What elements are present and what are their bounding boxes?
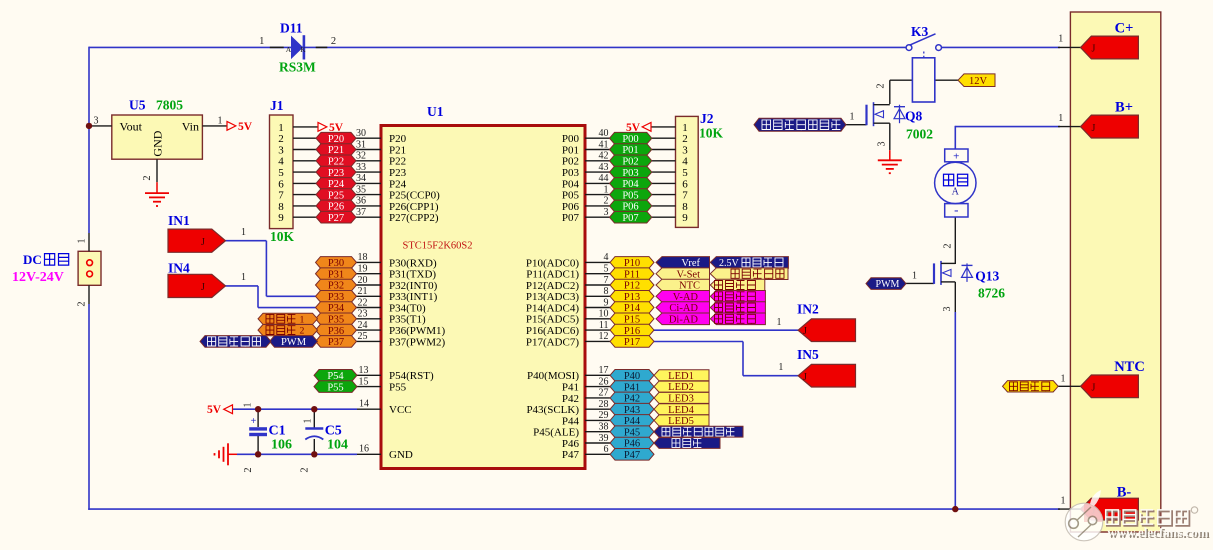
svg-text:P36(PWM1): P36(PWM1) [389,325,446,337]
svg-text:5: 5 [682,167,688,179]
svg-text:1: 1 [278,122,284,134]
svg-text:P07: P07 [562,212,580,224]
svg-text:P41: P41 [562,382,579,394]
svg-text:2: 2 [682,133,688,145]
svg-text:P16(ADC6): P16(ADC6) [526,325,580,337]
svg-text:P26(CPP1): P26(CPP1) [389,201,439,213]
svg-text:P44: P44 [562,415,580,427]
svg-text:7: 7 [682,190,688,202]
svg-text:4: 4 [604,252,609,263]
svg-text:34: 34 [356,173,366,184]
svg-text:P54(RST): P54(RST) [389,370,434,382]
svg-text:33: 33 [356,162,366,173]
svg-text:1: 1 [241,272,246,283]
svg-text:1: 1 [259,36,264,47]
svg-text:IN2: IN2 [797,302,819,317]
svg-text:2: 2 [943,244,954,249]
svg-text:P46: P46 [562,438,580,450]
svg-text:1: 1 [912,270,917,281]
svg-text:17: 17 [599,365,609,376]
svg-text:28: 28 [599,399,609,410]
svg-text:19: 19 [358,264,368,275]
svg-text:1: 1 [243,403,254,408]
svg-text:8: 8 [278,201,284,213]
svg-text:4: 4 [278,156,284,168]
svg-text:3: 3 [682,144,688,156]
svg-text:P00: P00 [562,133,580,145]
svg-text:31: 31 [356,139,366,150]
svg-text:P55: P55 [389,382,407,394]
svg-text:P12(ADC2): P12(ADC2) [526,280,580,292]
svg-text:7: 7 [278,190,284,202]
svg-text:U1: U1 [427,104,444,119]
svg-text:1: 1 [1061,373,1066,384]
svg-text:8: 8 [682,201,688,213]
svg-text:6: 6 [682,178,688,190]
svg-text:18: 18 [358,252,368,263]
svg-text:GND: GND [151,130,165,156]
svg-text:106: 106 [271,438,292,453]
svg-text:7002: 7002 [906,127,933,142]
svg-text:1: 1 [77,239,88,244]
svg-text:20: 20 [358,275,368,286]
svg-text:P10(ADC0): P10(ADC0) [526,257,580,269]
svg-text:Q13: Q13 [975,268,999,283]
svg-text:DC: DC [23,252,42,267]
svg-text:3: 3 [942,307,953,312]
svg-text:J: J [1092,123,1096,134]
svg-text:Di-AD: Di-AD [669,315,699,326]
svg-text:K: K [300,45,306,54]
svg-text:P04: P04 [562,178,580,190]
svg-text:GND: GND [389,449,413,461]
svg-text:3: 3 [877,142,888,147]
svg-text:LED3: LED3 [668,394,694,405]
svg-text:-: - [954,202,958,217]
svg-text:6: 6 [278,178,284,190]
svg-text:43: 43 [599,162,609,173]
svg-text:2: 2 [331,36,336,47]
svg-text:44: 44 [599,173,609,184]
svg-text:P21: P21 [389,144,406,156]
svg-text:8726: 8726 [978,286,1005,301]
svg-text:9: 9 [278,212,284,224]
svg-text:U5: U5 [129,98,146,113]
svg-text:D11: D11 [280,21,303,36]
svg-text:2: 2 [300,468,311,473]
svg-text:2: 2 [278,133,284,145]
svg-text:P24: P24 [389,178,407,190]
svg-text:22: 22 [358,297,368,308]
svg-text:LED4: LED4 [668,405,694,416]
svg-text:1: 1 [604,184,609,195]
svg-text:1: 1 [1058,34,1063,45]
svg-text:P37: P37 [328,337,344,348]
svg-text:A: A [952,187,960,198]
svg-text:12V: 12V [969,76,988,87]
svg-text:A: A [286,45,292,54]
svg-text:25: 25 [358,331,368,342]
svg-text:2: 2 [243,468,254,473]
svg-text:P45(ALE): P45(ALE) [533,427,579,439]
svg-text:P17(ADC7): P17(ADC7) [526,336,580,348]
svg-text:P27(CPP2): P27(CPP2) [389,212,439,224]
svg-text:1: 1 [1058,113,1063,124]
svg-text:P13(ADC3): P13(ADC3) [526,291,580,303]
svg-text:P07: P07 [622,213,638,224]
svg-text:104: 104 [327,438,348,453]
svg-text:P23: P23 [389,167,407,179]
svg-text:2: 2 [604,196,609,207]
svg-text:P31(TXD): P31(TXD) [389,269,436,281]
svg-text:IN5: IN5 [797,347,819,362]
svg-text:27: 27 [599,388,609,399]
svg-text:2: 2 [77,302,88,307]
svg-text:P02: P02 [562,156,579,168]
svg-text:Vin: Vin [182,120,199,134]
svg-text:7805: 7805 [156,98,183,113]
svg-text:13: 13 [359,365,369,376]
svg-text:1: 1 [303,419,314,424]
svg-text:10K: 10K [699,126,724,141]
svg-text:J1: J1 [270,98,284,113]
svg-text:P03: P03 [562,167,580,179]
svg-text:P37(PWM2): P37(PWM2) [389,336,446,348]
svg-text:J: J [201,282,205,293]
svg-text:P15(ADC5): P15(ADC5) [526,314,580,326]
svg-text:1: 1 [682,122,688,134]
svg-text:1: 1 [850,112,855,123]
svg-text:6: 6 [604,444,609,455]
svg-text:P06: P06 [562,201,580,213]
svg-text:LED2: LED2 [668,382,694,393]
svg-text:P11(ADC1): P11(ADC1) [526,269,579,281]
svg-text:K3: K3 [911,24,929,39]
svg-text:C1: C1 [269,424,286,439]
svg-text:J: J [803,326,807,337]
svg-text:P01: P01 [562,144,579,156]
svg-text:P47: P47 [624,450,640,461]
svg-text:P20: P20 [389,133,407,145]
svg-text:P14(ADC4): P14(ADC4) [526,302,580,314]
svg-text:J2: J2 [700,111,714,126]
svg-text:39: 39 [599,433,609,444]
svg-text:P32(INT0): P32(INT0) [389,280,438,292]
svg-text:12: 12 [599,331,609,342]
svg-text:15: 15 [359,376,369,387]
svg-text:4: 4 [682,156,688,168]
svg-text:LED1: LED1 [668,371,694,382]
svg-text:2: 2 [142,176,153,181]
svg-text:2.5V: 2.5V [719,258,740,269]
svg-text:10: 10 [599,309,609,320]
svg-text:P17: P17 [624,337,640,348]
svg-text:23: 23 [358,309,368,320]
svg-text:5: 5 [604,264,609,275]
svg-text:STC15F2K60S2: STC15F2K60S2 [402,241,472,252]
svg-text:PWM: PWM [876,279,900,290]
svg-text:3: 3 [94,116,99,127]
svg-text:IN1: IN1 [168,213,190,228]
svg-text:1: 1 [777,317,782,328]
svg-text:P05: P05 [562,190,580,202]
svg-text:PWM: PWM [281,337,307,348]
svg-text:1: 1 [778,362,783,373]
svg-text:P22: P22 [389,156,406,168]
svg-text:P34(T0): P34(T0) [389,302,426,314]
svg-text:42: 42 [599,151,609,162]
svg-text:P27: P27 [328,213,344,224]
svg-text:J: J [1092,383,1096,394]
svg-text:9: 9 [682,212,688,224]
svg-text:1: 1 [1061,495,1066,506]
svg-text:NTC: NTC [1114,359,1145,375]
svg-text:5V: 5V [238,121,253,133]
svg-text:36: 36 [356,196,366,207]
svg-text:C5: C5 [325,424,342,439]
svg-text:P55: P55 [327,382,343,393]
svg-text:40: 40 [599,128,609,139]
svg-text:21: 21 [358,286,368,297]
svg-text:P25(CCP0): P25(CCP0) [389,190,440,202]
svg-text:26: 26 [599,376,609,387]
svg-text:24: 24 [358,320,368,331]
svg-text:37: 37 [356,207,366,218]
svg-text:1: 1 [218,116,223,127]
svg-text:32: 32 [356,151,366,162]
svg-text:Vout: Vout [120,120,143,134]
svg-text:+: + [251,416,257,427]
svg-text:9: 9 [604,297,609,308]
svg-text:B+: B+ [1115,100,1133,116]
svg-text:5V: 5V [207,404,222,416]
svg-text:IN4: IN4 [168,261,190,276]
svg-text:3: 3 [278,144,284,156]
svg-text:Q8: Q8 [905,109,923,124]
svg-text:P42: P42 [562,393,579,405]
svg-text:38: 38 [599,422,609,433]
svg-text:P40(MOSI): P40(MOSI) [527,370,579,382]
svg-text:P35(T1): P35(T1) [389,314,426,326]
svg-text:7: 7 [604,275,609,286]
svg-text:2: 2 [300,326,305,337]
svg-text:J: J [201,237,205,248]
svg-text:B-: B- [1117,485,1132,501]
svg-text:8: 8 [604,286,609,297]
svg-text:2: 2 [876,84,887,89]
svg-text:LED5: LED5 [668,416,694,427]
svg-text:P43(SCLK): P43(SCLK) [526,404,579,416]
svg-text:J: J [803,372,807,383]
svg-text:10K: 10K [270,229,295,244]
svg-text:41: 41 [599,139,609,150]
svg-text:www.elecfans.com: www.elecfans.com [1107,524,1208,539]
svg-text:30: 30 [356,128,366,139]
svg-text:1: 1 [241,227,246,238]
svg-text:C+: C+ [1115,21,1134,37]
svg-text:+: + [953,150,959,162]
svg-text:P33(INT1): P33(INT1) [389,291,438,303]
svg-text:3: 3 [604,207,609,218]
svg-text:P30(RXD): P30(RXD) [389,257,437,269]
svg-text:14: 14 [359,398,369,409]
svg-text:35: 35 [356,184,366,195]
svg-text:11: 11 [599,320,609,331]
svg-text:P47: P47 [562,449,580,461]
svg-text:29: 29 [599,410,609,421]
svg-text:12V-24V: 12V-24V [12,270,64,285]
svg-text:5: 5 [278,167,284,179]
svg-text:J: J [1092,44,1096,55]
svg-text:RS3M: RS3M [279,60,316,75]
svg-text:VCC: VCC [389,404,412,416]
svg-text:1: 1 [300,314,305,325]
svg-text:16: 16 [359,444,369,455]
